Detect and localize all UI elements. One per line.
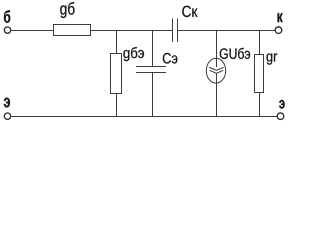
resistor R gб body [54, 25, 91, 36]
capacitor Ск right plate [177, 19, 179, 43]
label node к [278, 13, 283, 22]
label value gбэ [123, 47, 144, 61]
wire base input to resistor gб [11, 30, 54, 32]
node к terminal circle [275, 27, 282, 34]
capacitor Сэ top plate [136, 66, 166, 68]
wire current source to bottom rail [216, 83, 218, 116]
label node э left [4, 98, 10, 108]
label value gб [60, 2, 74, 18]
wire branch down to capacitor Сэ [152, 31, 154, 67]
wire resistor gб to capacitor Ск left plate [91, 30, 173, 32]
wire branch down to current source GUбэ [216, 31, 218, 59]
resistor R gr body [255, 55, 264, 93]
wire resistor gr to bottom rail [259, 93, 261, 117]
node б terminal circle [4, 27, 10, 33]
current source GUбэ body ellipse [206, 58, 225, 83]
wire branch down to resistor gбэ [116, 31, 118, 54]
current source internal conductor upper [216, 58, 218, 67]
current source arrowhead chevron 2 [210, 70, 224, 73]
node э terminal circle right [277, 113, 284, 120]
capacitor Сэ bottom plate [136, 72, 166, 74]
label value Сэ [163, 53, 178, 64]
label value GUбэ [220, 48, 250, 59]
label value Ск [182, 6, 197, 17]
label node б [4, 10, 10, 23]
wire branch down to resistor gr [259, 31, 261, 55]
label value gr [267, 53, 278, 64]
node э terminal circle left [4, 113, 10, 119]
capacitor Ск left plate [172, 19, 174, 43]
resistor R gбэ body [111, 54, 122, 94]
label node э right [279, 100, 284, 109]
wire capacitor Сэ to bottom rail [152, 73, 154, 117]
wire capacitor Ск right plate to collector terminal [178, 30, 276, 32]
wire resistor gбэ to bottom rail [116, 94, 118, 117]
current source arrowhead chevron 1 [209, 67, 223, 70]
bottom emitter rail wire [11, 116, 278, 118]
current source internal conductor lower [216, 73, 218, 83]
